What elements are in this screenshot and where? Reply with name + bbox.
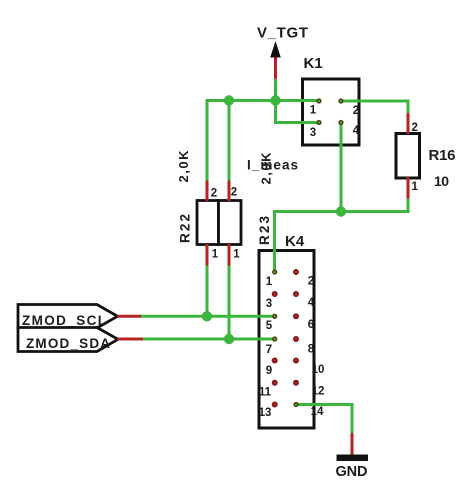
K4 pin 6 dot — [293, 314, 298, 319]
K1 pin number 4 — [353, 125, 360, 137]
K4 pin number 1 — [266, 276, 273, 288]
K4 pin number 14 — [311, 406, 324, 418]
K1 pin number 3 — [310, 127, 316, 139]
K4 pin 1 dot — [273, 270, 277, 274]
svg-text:2: 2 — [211, 188, 217, 200]
K4 pin number 7 — [266, 344, 272, 356]
K4 pin number 13 — [259, 407, 272, 419]
svg-text:V_TGT: V_TGT — [257, 25, 308, 42]
svg-text:ZMOD_SCL: ZMOD_SCL — [22, 313, 106, 328]
wire K4 pin 14 to GND — [296, 405, 352, 435]
label K4 — [285, 233, 305, 250]
K4 pin 5 dot — [273, 314, 277, 318]
wire ZMOD_SDA to K4 pin 7 — [142, 338, 275, 341]
svg-text:11: 11 — [259, 387, 272, 399]
ZMOD_SDA pin stub — [118, 338, 144, 341]
R23 pin 1 stub — [228, 244, 231, 266]
wire R23 bottom to ZMOD_SDA line — [228, 265, 231, 340]
K1 pin number 2 — [353, 105, 359, 117]
svg-text:1: 1 — [412, 181, 419, 193]
svg-text:9: 9 — [266, 365, 272, 377]
svg-text:1: 1 — [233, 249, 240, 261]
label R22 rotated — [178, 214, 193, 243]
K4 pin 11 dot — [272, 380, 277, 385]
wire ZMOD_SCL to K4 pin 5 — [140, 315, 275, 318]
K4 pin 4 dot — [293, 291, 298, 296]
svg-text:14: 14 — [311, 406, 324, 418]
svg-text:2,0K: 2,0K — [176, 150, 191, 183]
K4 pin number 3 — [266, 298, 272, 310]
R16 pin 2 stub — [407, 113, 410, 134]
svg-text:2: 2 — [308, 276, 314, 288]
K4 pin number 4 — [308, 297, 315, 309]
wire V_TGT vertical drop — [274, 78, 277, 103]
R22 pin 2 stub — [206, 181, 209, 202]
value 2,0K of R23 rotated — [259, 152, 274, 185]
svg-text:10: 10 — [434, 173, 449, 189]
K4 pin number 9 — [266, 365, 272, 377]
resistor R23 body — [219, 201, 242, 245]
net flag ZMOD_SCL — [18, 305, 118, 329]
R22 pin 1 stub — [206, 244, 209, 266]
R22 pin number 1 — [212, 249, 219, 261]
svg-text:ZMOD_SDA: ZMOD_SDA — [26, 336, 110, 351]
svg-text:12: 12 — [312, 386, 325, 398]
svg-text:3: 3 — [310, 127, 316, 139]
svg-text:R23: R23 — [257, 216, 272, 245]
wire to K1 pin 3 — [276, 101, 320, 123]
wire branch down to R23 top — [228, 101, 231, 182]
ground symbol GND — [337, 455, 369, 462]
junction at R23 top branch — [224, 95, 234, 105]
svg-text:10: 10 — [312, 364, 325, 376]
svg-text:1: 1 — [310, 105, 317, 117]
label R23 rotated — [257, 216, 272, 245]
svg-text:2: 2 — [412, 122, 418, 134]
svg-text:1: 1 — [212, 249, 219, 261]
label K1 — [304, 55, 323, 72]
junction ZMOD_SDA node — [224, 334, 234, 344]
K4 pin 8 dot — [293, 336, 298, 341]
label V_TGT — [257, 25, 308, 42]
svg-text:4: 4 — [353, 125, 360, 137]
R16 pin number 2 — [412, 122, 418, 134]
K4 pin number 10 — [312, 364, 325, 376]
svg-text:K1: K1 — [304, 55, 323, 72]
wire R16 bottom to K4 pin 1 — [275, 198, 409, 273]
wire R22 bottom to ZMOD_SCL line — [206, 265, 209, 317]
svg-text:8: 8 — [308, 344, 315, 356]
K1 pin number 1 — [310, 105, 317, 117]
wire K1 pin 4 down to I_meas node — [340, 123, 343, 212]
K4 pin 14 dot — [294, 403, 298, 407]
K4 pin number 5 — [266, 320, 273, 332]
svg-text:K4: K4 — [285, 233, 305, 250]
K4 pin number 8 — [308, 344, 315, 356]
svg-text:2: 2 — [231, 187, 237, 199]
svg-text:R16: R16 — [429, 147, 456, 164]
K4 pin number 11 — [259, 387, 272, 399]
svg-text:R22: R22 — [178, 214, 193, 243]
R16 pin number 1 — [412, 181, 419, 193]
svg-text:4: 4 — [308, 297, 315, 309]
R23 pin number 2 — [231, 187, 237, 199]
junction V_TGT node — [270, 95, 280, 105]
connector K4 body — [259, 251, 314, 429]
R23 pin 2 stub — [228, 181, 231, 202]
text ZMOD_SDA — [26, 336, 110, 351]
svg-text:2: 2 — [353, 105, 359, 117]
value 10 of R16 — [434, 173, 449, 189]
K4 pin 9 dot — [272, 358, 277, 363]
R16 pin 1 stub — [407, 177, 410, 199]
R22 pin number 2 — [211, 188, 217, 200]
junction I_meas node — [336, 206, 346, 216]
net label I_meas — [247, 158, 298, 173]
ZMOD_SCL pin stub — [118, 315, 142, 318]
svg-text:6: 6 — [308, 319, 314, 331]
svg-text:5: 5 — [266, 320, 273, 332]
K4 pin 7 dot — [273, 337, 277, 341]
K4 pin 2 dot — [293, 269, 298, 274]
value 2,0K of R22 rotated — [176, 150, 191, 183]
K4 pin 12 dot — [293, 380, 298, 385]
R23 pin number 1 — [233, 249, 240, 261]
svg-text:7: 7 — [266, 344, 272, 356]
label GND — [336, 464, 368, 480]
wire V_TGT bus to K1 pin 1 and down to R22 — [207, 101, 319, 182]
svg-text:1: 1 — [266, 276, 273, 288]
resistor R22 body — [197, 201, 219, 245]
K4 pin number 6 — [308, 319, 314, 331]
relay K1 body — [303, 79, 360, 145]
K4 pin number 2 — [308, 276, 314, 288]
K1 pin 4 dot — [339, 121, 343, 125]
resistor R16 body — [396, 134, 420, 179]
text ZMOD_SCL — [22, 313, 106, 328]
K1 pin 1 dot — [317, 99, 321, 103]
K4 pin number 12 — [312, 386, 325, 398]
svg-text:GND: GND — [336, 464, 368, 480]
K4 pin 3 dot — [272, 291, 277, 296]
label R16 — [429, 147, 456, 164]
GND pin stub — [351, 433, 354, 455]
K1 pin 2 dot — [339, 99, 343, 103]
K1 pin 3 dot — [317, 121, 321, 125]
net flag ZMOD_SDA — [18, 328, 118, 352]
svg-text:I_meas: I_meas — [247, 158, 298, 173]
wire K1 pin 2 to R16 top — [341, 101, 408, 114]
power arrow V_TGT — [270, 41, 281, 58]
svg-text:3: 3 — [266, 298, 272, 310]
K4 pin 13 dot — [272, 402, 277, 407]
K4 pin 10 dot — [293, 358, 298, 363]
junction ZMOD_SCL node — [202, 311, 212, 321]
svg-text:13: 13 — [259, 407, 272, 419]
V_TGT pin stub — [274, 58, 277, 79]
